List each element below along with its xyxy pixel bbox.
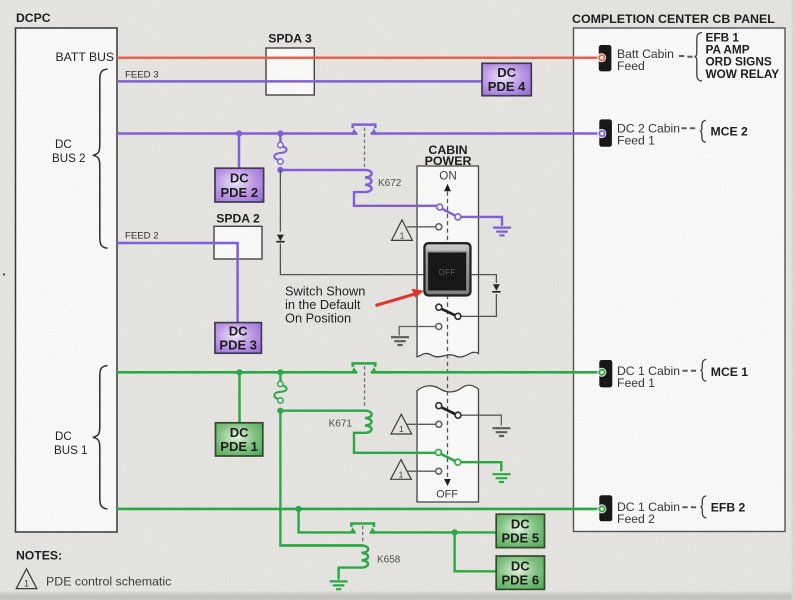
wire breaker stub (green) xyxy=(279,372,281,381)
SPDA 2 box xyxy=(214,226,262,259)
relay coil K658 with wiring and ground xyxy=(280,546,368,580)
note flag 1 triangle (upper) xyxy=(392,220,413,241)
wire diode branch (dark) from breaker to OFF pushbutton xyxy=(280,170,423,275)
SPDA 3 box xyxy=(266,48,314,95)
wire note1 to NC pin (gray) xyxy=(407,226,436,228)
circuit breaker CB (DC BUS 1) xyxy=(274,381,286,403)
pin circle pivot (black) xyxy=(436,304,442,310)
arrow down OFF xyxy=(444,479,451,486)
dashed link contact K672 to coil xyxy=(364,128,366,168)
note flag 1 triangle (lower box upper) xyxy=(391,414,412,434)
pin circle pivot (black) xyxy=(436,403,442,409)
pin circle lever end (black) xyxy=(455,412,461,418)
OFF pushbutton assembly xyxy=(423,242,471,297)
dashes row2 xyxy=(682,127,696,129)
wire pushbutton to diode to lower lever (gray) xyxy=(461,275,496,317)
node junction DC BUS 1 / PDE1 xyxy=(236,369,242,375)
connector Batt Cabin Feed (black) xyxy=(597,45,611,71)
pin circle common (green) xyxy=(435,449,441,455)
wire drop to DC PDE 2 xyxy=(238,134,241,169)
ground (gray, lower box) xyxy=(493,428,511,436)
dashes row4 xyxy=(683,506,697,508)
COMPLETION CENTER CB PANEL box xyxy=(574,28,786,532)
note flag 1 triangle (lower box lower) xyxy=(391,460,412,480)
pin circle lever end (purple) xyxy=(455,214,461,220)
node junction DC BUS 2 / PDE2 xyxy=(236,130,242,136)
cabin power switch upper box (torn bottom) xyxy=(417,166,479,357)
cabin power switch lower box (torn top) xyxy=(417,385,479,502)
wire lever to ground (purple) xyxy=(458,217,502,226)
brace row4 xyxy=(701,496,707,518)
diode CR (pushbutton branch) xyxy=(493,284,500,291)
switch S1 upper contact set: purple lever xyxy=(441,208,457,216)
brace row3 xyxy=(701,359,707,381)
node junction bottom bus / K658 xyxy=(296,506,302,512)
pin circle common (purple) xyxy=(437,204,443,210)
stray dot xyxy=(3,273,5,275)
pin circle NC2 (gray) xyxy=(436,324,442,330)
wire DC bus bottom feed 2 (green) xyxy=(117,508,600,511)
pin circle (gray, lower) xyxy=(436,468,442,474)
brace DC BUS 1 xyxy=(93,366,108,510)
diode CR (DC BUS 2 branch) xyxy=(277,235,284,241)
ground (green, K658) xyxy=(330,581,348,589)
pin circle NC (gray) xyxy=(436,224,442,230)
node junction breaker out (green) xyxy=(277,408,283,414)
dashes row1 xyxy=(679,55,693,58)
wire DC BUS 1 (green, gap at relay contact) xyxy=(117,371,600,374)
wire green drop to K658 xyxy=(280,411,363,546)
brace DC BUS 2 xyxy=(93,69,108,248)
relay contact K671 (on DC BUS 1) xyxy=(351,363,378,373)
wire bottom bus to contact K658 to PDE5 xyxy=(299,509,497,533)
connector DC 1 Cabin Feed 2 (black) xyxy=(597,495,612,521)
dashes row3 xyxy=(683,370,697,372)
pin circle lever end (green) xyxy=(455,459,461,465)
node junction DC BUS 2 / breaker xyxy=(277,130,283,136)
ground (gray, middle) xyxy=(391,337,409,345)
switch S1 middle contact set: black lever xyxy=(436,306,456,316)
node junction breaker out xyxy=(277,167,283,173)
connector DC 1 Cabin Feed 1 (black) xyxy=(597,360,612,387)
right page edge band xyxy=(792,0,795,600)
DCPC box xyxy=(16,28,118,532)
wire DC BUS 2 (purple, gap at relay contact) xyxy=(117,132,600,135)
connector DC 2 Cabin Feed 1 (black) xyxy=(597,119,612,146)
relay coil K672 with wiring xyxy=(280,170,437,206)
node junction PDE5/PDE6 xyxy=(452,529,458,535)
red callout arrow xyxy=(376,289,425,306)
wire drop to DC PDE 6 xyxy=(455,532,497,571)
switch S1 green contact set: lever xyxy=(436,452,456,462)
DC PDE 1 box xyxy=(216,423,263,456)
note flag 1 triangle (notes) xyxy=(16,569,37,589)
wire FEED 2 to DC PDE 3 (purple) xyxy=(117,243,238,323)
wire breaker stub (purple) xyxy=(279,134,281,143)
relay coil K671 with wiring xyxy=(280,411,436,453)
switch S1 lower black contact set: lever xyxy=(436,405,456,415)
wire lever to ground (green) xyxy=(458,462,502,471)
wire note1 to pin (gray) xyxy=(407,423,436,425)
ground (purple, cabin power ON) xyxy=(493,228,511,236)
DC PDE 4 box xyxy=(482,63,531,95)
DC PDE 3 box xyxy=(215,323,261,354)
wire FEED 3 (purple) xyxy=(117,80,482,83)
wire note1 to pin (gray, lower) xyxy=(407,470,436,472)
brace row2 xyxy=(700,120,706,142)
dashed link contact K658 to coil xyxy=(362,526,364,544)
brace row1 xyxy=(695,33,702,82)
relay contact K658 xyxy=(349,524,376,534)
ground (green, cabin power OFF) xyxy=(493,474,511,482)
circuit breaker CB (DC BUS 2) xyxy=(274,142,286,164)
pin circle (gray) xyxy=(436,421,442,427)
wire BATT BUS (red) xyxy=(117,56,600,59)
DC PDE 2 box xyxy=(215,168,264,202)
wire drop to DC PDE 1 xyxy=(238,372,241,423)
DC PDE 5 box xyxy=(496,514,544,547)
node junction DC BUS 1 / breaker xyxy=(277,369,283,375)
switch mechanical dashed centerline xyxy=(447,192,449,479)
pin circle lever end (black) xyxy=(455,313,461,319)
DC PDE 6 box xyxy=(496,556,544,589)
arrow up ON xyxy=(444,184,451,192)
dashed link contact K671 to coil xyxy=(364,366,366,408)
wire lever to ground (gray) xyxy=(458,415,501,425)
relay contact K672 (on DC BUS 2) xyxy=(351,125,378,135)
wire NC pin to ground (gray) xyxy=(399,327,436,336)
bottom page edge band xyxy=(0,592,795,600)
